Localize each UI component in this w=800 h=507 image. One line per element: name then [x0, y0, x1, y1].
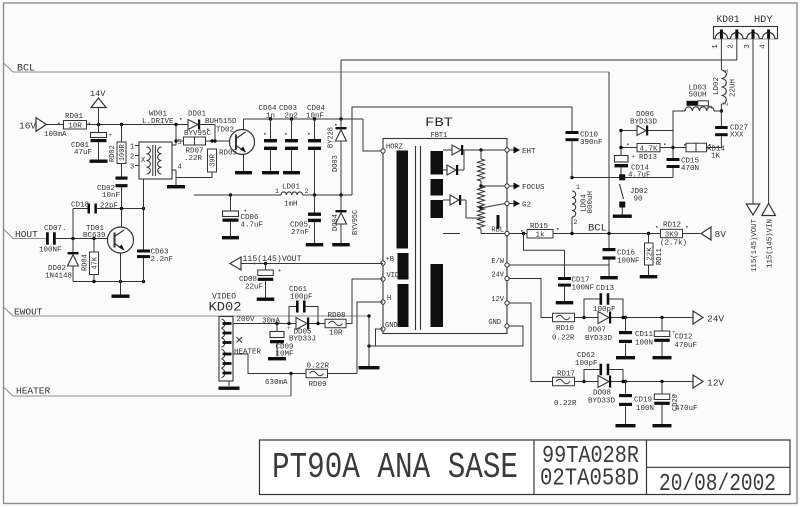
- svg-text:BCL: BCL: [17, 64, 35, 75]
- svg-text:(2.7k): (2.7k): [660, 240, 687, 248]
- svg-text:BYD33J: BYD33J: [289, 336, 316, 344]
- svg-text:KD02: KD02: [209, 301, 242, 315]
- svg-text:2: 2: [728, 44, 736, 49]
- svg-text:1: 1: [712, 44, 720, 49]
- svg-text:20/08/2002: 20/08/2002: [659, 471, 776, 498]
- svg-text:470N: 470N: [681, 165, 699, 173]
- svg-text:DO07: DO07: [588, 327, 606, 335]
- svg-text:3: 3: [130, 163, 134, 171]
- svg-text:1: 1: [275, 188, 279, 195]
- svg-text:4.7K: 4.7K: [639, 145, 658, 153]
- svg-text:RD09: RD09: [309, 381, 327, 389]
- svg-text:630mA: 630mA: [265, 379, 288, 387]
- svg-text:DO03: DO03: [332, 155, 340, 172]
- svg-text:BYD33D: BYD33D: [588, 398, 616, 406]
- svg-text:BYV95C: BYV95C: [352, 210, 360, 235]
- svg-text:CD07.: CD07.: [44, 225, 67, 233]
- svg-text:1: 1: [576, 184, 580, 191]
- svg-text:CD62: CD62: [577, 352, 595, 360]
- svg-text:RD10: RD10: [556, 325, 575, 333]
- svg-text:1k: 1k: [535, 232, 545, 240]
- svg-text:LD01: LD01: [282, 184, 301, 192]
- svg-text:PT90A ANA SASE: PT90A ANA SASE: [272, 447, 518, 488]
- svg-text:2: 2: [130, 153, 134, 161]
- svg-text:470uF: 470uF: [675, 405, 698, 413]
- svg-text:100N: 100N: [636, 405, 654, 413]
- svg-text:+B: +B: [386, 256, 394, 264]
- svg-text:CD13: CD13: [596, 285, 615, 293]
- svg-text:800uH: 800uH: [587, 191, 595, 214]
- svg-text:CD19: CD19: [634, 397, 652, 405]
- svg-text:TD02: TD02: [216, 127, 234, 135]
- svg-text:115(145)VOUT: 115(145)VOUT: [751, 219, 759, 272]
- svg-text:+: +: [278, 268, 282, 275]
- svg-text:DD01: DD01: [188, 111, 207, 119]
- svg-text:GND: GND: [488, 319, 501, 327]
- svg-text:+: +: [244, 208, 248, 215]
- svg-text:47uF: 47uF: [74, 149, 92, 157]
- svg-text:CD16: CD16: [617, 250, 636, 258]
- svg-text:47K: 47K: [92, 256, 100, 269]
- svg-text:FOCUS: FOCUS: [522, 184, 545, 192]
- svg-text:3: 3: [744, 44, 752, 49]
- svg-text:3K9: 3K9: [665, 231, 679, 239]
- svg-text:+: +: [672, 392, 676, 399]
- svg-text:22UH: 22UH: [730, 79, 738, 97]
- svg-text:2: 2: [574, 219, 578, 226]
- svg-text:100pF: 100pF: [593, 306, 616, 314]
- svg-text:1: 1: [130, 143, 134, 151]
- svg-text:LD02: LD02: [713, 77, 721, 95]
- svg-text:EHT: EHT: [522, 148, 536, 156]
- svg-text:1mH: 1mH: [284, 201, 298, 209]
- svg-text:5: 5: [178, 139, 182, 147]
- svg-text:RD05: RD05: [219, 149, 238, 157]
- svg-text:+: +: [253, 261, 257, 268]
- svg-text:1N4148: 1N4148: [45, 273, 72, 281]
- svg-text:BYD33D: BYD33D: [585, 335, 613, 343]
- svg-text:90: 90: [634, 196, 644, 204]
- svg-text:100R: 100R: [119, 144, 127, 162]
- svg-text:50UH: 50UH: [689, 92, 707, 100]
- svg-text:200V: 200V: [237, 316, 256, 324]
- svg-text:1K: 1K: [711, 153, 721, 161]
- svg-text:2: 2: [707, 105, 714, 109]
- svg-text:EWOUT: EWOUT: [14, 307, 43, 318]
- svg-text:1: 1: [723, 69, 730, 73]
- svg-text:RD13: RD13: [639, 154, 658, 162]
- svg-text:0.22R: 0.22R: [554, 400, 577, 408]
- svg-text:VID: VID: [387, 272, 400, 280]
- svg-text:27nF: 27nF: [291, 229, 309, 237]
- svg-text:2.2nF: 2.2nF: [151, 256, 174, 264]
- svg-text:100N: 100N: [635, 340, 653, 348]
- svg-text:8V: 8V: [715, 229, 727, 240]
- svg-text:XXX: XXX: [730, 132, 744, 140]
- svg-text:2: 2: [723, 102, 730, 106]
- svg-text:RD04: RD04: [82, 254, 90, 271]
- svg-text:24V: 24V: [707, 314, 724, 325]
- svg-text:DO08: DO08: [593, 390, 611, 398]
- svg-text:+: +: [109, 132, 113, 139]
- svg-text:10nF: 10nF: [306, 113, 324, 121]
- svg-text:100NF: 100NF: [39, 247, 62, 255]
- svg-text:115(145)VIN: 115(145)VIN: [767, 219, 775, 268]
- svg-text:24V: 24V: [491, 272, 504, 280]
- svg-text:100mA: 100mA: [44, 131, 67, 139]
- svg-text:4.7uF: 4.7uF: [628, 172, 651, 180]
- svg-text:H: H: [387, 295, 391, 303]
- svg-text:470uF: 470uF: [675, 342, 698, 350]
- svg-text:RD12: RD12: [663, 222, 681, 230]
- svg-text:12V: 12V: [707, 378, 724, 389]
- svg-text:DO04: DO04: [332, 214, 340, 231]
- svg-text:HORZ: HORZ: [386, 144, 403, 152]
- svg-text:HOUT: HOUT: [15, 229, 38, 240]
- svg-text:390nF: 390nF: [580, 139, 603, 147]
- svg-text:100pF: 100pF: [290, 293, 313, 301]
- svg-text:22K: 22K: [646, 247, 654, 261]
- svg-text:+: +: [672, 329, 676, 336]
- svg-text:FBT: FBT: [425, 115, 453, 130]
- svg-text:BYD33D: BYD33D: [630, 118, 658, 126]
- svg-text:16V: 16V: [19, 121, 36, 132]
- svg-text:BY228: BY228: [328, 127, 336, 148]
- svg-text:.22R: .22R: [184, 155, 203, 163]
- svg-text:1n: 1n: [266, 113, 275, 121]
- svg-text:CD17: CD17: [572, 277, 590, 285]
- svg-text:10nF: 10nF: [102, 192, 120, 200]
- svg-text:100NF: 100NF: [572, 285, 595, 293]
- svg-text:100pF: 100pF: [575, 360, 598, 368]
- svg-text:4: 4: [178, 164, 182, 172]
- svg-text:CD11: CD11: [635, 331, 654, 339]
- svg-text:10R: 10R: [329, 330, 343, 338]
- svg-text:RD02: RD02: [109, 145, 117, 162]
- svg-text:10R: 10R: [68, 123, 82, 131]
- svg-text:E/W: E/W: [491, 258, 504, 266]
- svg-text:HDY: HDY: [754, 15, 773, 26]
- svg-text:+: +: [632, 154, 636, 161]
- svg-text:CD12: CD12: [675, 334, 693, 342]
- svg-text:02TA058D: 02TA058D: [540, 466, 639, 493]
- svg-text:L.DRIVE: L.DRIVE: [142, 118, 174, 126]
- svg-text:14V: 14V: [90, 89, 106, 99]
- svg-text:12V: 12V: [491, 296, 504, 304]
- svg-text:HEATER: HEATER: [16, 386, 51, 397]
- svg-text:KD01: KD01: [717, 15, 740, 26]
- svg-text:4.7uF: 4.7uF: [241, 222, 264, 230]
- svg-text:BCL: BCL: [588, 223, 607, 235]
- svg-text:G2: G2: [522, 202, 531, 210]
- svg-text:39R: 39R: [210, 153, 218, 166]
- svg-text:GND: GND: [385, 322, 398, 330]
- svg-text:115(145)VOUT: 115(145)VOUT: [243, 255, 302, 264]
- svg-text:0.22R: 0.22R: [552, 335, 575, 343]
- svg-text:22pF: 22pF: [100, 203, 118, 211]
- svg-text:2: 2: [305, 188, 309, 195]
- svg-text:100NF: 100NF: [617, 258, 640, 266]
- svg-text:+: +: [287, 325, 291, 332]
- svg-text:22uF: 22uF: [245, 284, 263, 292]
- svg-text:2n2: 2n2: [285, 113, 299, 121]
- svg-text:4: 4: [759, 44, 767, 49]
- svg-text:RD11: RD11: [656, 248, 664, 265]
- svg-text:RD01: RD01: [65, 113, 84, 121]
